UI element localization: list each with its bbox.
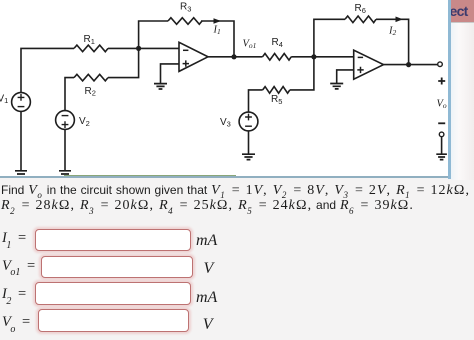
feedback wire node B up over R6 — [314, 19, 345, 57]
Vo minus sign — [438, 122, 445, 124]
resistor R5 — [263, 87, 290, 94]
label V1 — [0, 2, 366, 129]
partial button "ect" top right — [451, 0, 474, 22]
wire U1 + input to ground — [161, 64, 180, 84]
wire R5 to V3 — [249, 90, 263, 112]
wire R1 to node A — [108, 47, 179, 49]
current arrow I2 — [396, 17, 404, 23]
svg-text:I2: I2 — [388, 25, 397, 37]
resistor R2 — [74, 74, 108, 81]
answer row Vo1 — [2, 258, 35, 277]
wire U2 + input to ground — [337, 70, 354, 84]
ground (V2) — [59, 171, 71, 177]
lower terminal open circle — [439, 132, 444, 137]
U1 plus input sign — [183, 60, 189, 66]
node U2 output junction dot — [406, 62, 411, 67]
ground (output) — [436, 154, 447, 159]
wire lower terminal to ground — [441, 137, 443, 155]
resistor R3 — [168, 18, 202, 25]
svg-text:V1: V1 — [0, 93, 8, 105]
wire R3 to op-amp U1 output — [201, 21, 234, 57]
answer row I1 — [2, 230, 26, 249]
op-amp U1 — [179, 42, 208, 71]
svg-text:R1: R1 — [84, 34, 95, 46]
wire U1 output to R4 — [208, 56, 263, 58]
V2 minus sign — [62, 115, 69, 117]
resistor R4 — [263, 54, 292, 61]
question text line 2 — [1, 198, 414, 215]
svg-text:V3: V3 — [220, 117, 231, 129]
Vo plus sign — [438, 78, 445, 85]
op-amp U2 — [354, 50, 384, 79]
source V1 — [12, 93, 31, 112]
resistor R6 — [345, 16, 376, 23]
svg-text:Vo1: Vo1 — [243, 38, 257, 50]
V1 minus sign — [18, 106, 25, 108]
wire node B down to R5 — [290, 57, 314, 90]
circuit schematic SVG — [0, 0, 451, 178]
node B junction dot — [311, 54, 316, 59]
V2 plus sign — [62, 121, 69, 128]
svg-text:V2: V2 — [79, 116, 90, 128]
svg-text:R5: R5 — [271, 94, 282, 106]
wire U2 output to terminal — [384, 64, 438, 66]
ground (U2) — [330, 84, 343, 89]
wire R6 to op-amp U2 output — [376, 19, 409, 64]
svg-text:R4: R4 — [272, 37, 283, 49]
svg-text:R6: R6 — [355, 3, 366, 15]
wire V2 up to R2 — [65, 78, 74, 111]
V1 plus sign — [18, 94, 25, 101]
question text line 1 — [1, 183, 470, 200]
V3 minus sign — [245, 125, 252, 127]
node A junction dot — [136, 46, 141, 51]
answer row I2 — [2, 286, 26, 305]
V3 plus sign — [245, 114, 252, 121]
U2 plus input sign — [357, 67, 363, 73]
wire V3 to ground — [248, 131, 250, 154]
svg-text:R2: R2 — [85, 86, 96, 98]
ground (V1) — [15, 171, 27, 177]
current arrow I1 — [214, 18, 222, 24]
source V3 — [239, 112, 258, 131]
svg-text:I1: I1 — [213, 24, 221, 36]
wire R2 to node A — [108, 48, 139, 77]
ground (V3) — [242, 154, 255, 159]
resistor R1 — [74, 45, 108, 52]
svg-text:R3: R3 — [180, 2, 191, 14]
U2 minus input sign — [358, 56, 363, 58]
wire V1 to ground — [20, 111, 22, 170]
svg-text:Vo: Vo — [437, 98, 447, 110]
U1 minus input sign — [183, 49, 188, 51]
node Vo1 junction dot — [231, 54, 236, 59]
feedback wire node A up over R3 — [139, 21, 168, 48]
wire V2 to ground — [64, 129, 66, 170]
answer row Vo — [2, 314, 30, 333]
wire V1 top to R1 — [21, 48, 74, 92]
source V2 — [56, 111, 75, 130]
wire R4 to node B — [291, 56, 354, 58]
output terminal open circle — [438, 62, 443, 67]
ground (U1) — [154, 84, 167, 89]
